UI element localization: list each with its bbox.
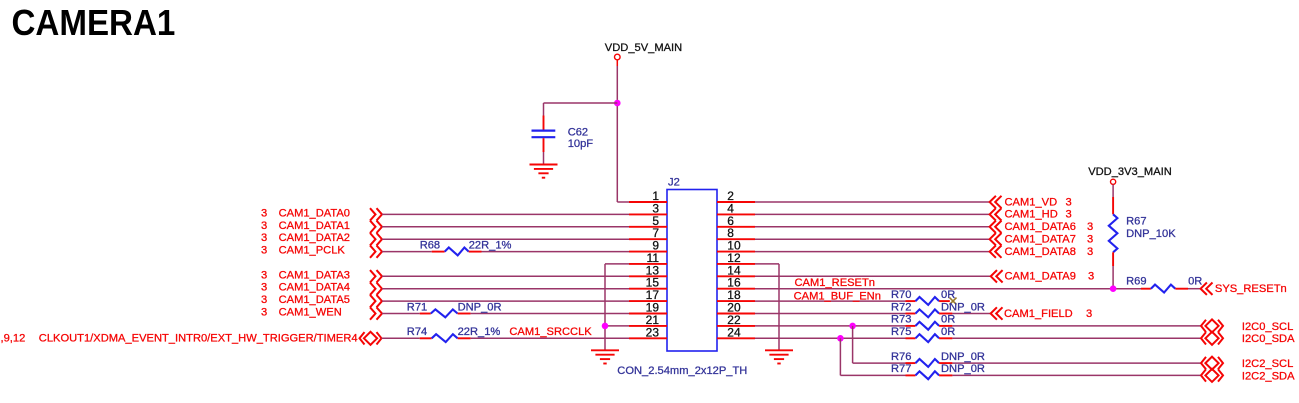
svg-text:CAM1_HD: CAM1_HD [1005, 209, 1058, 221]
svg-text:,9,12: ,9,12 [1, 332, 26, 344]
svg-text:CAM1_FIELD: CAM1_FIELD [1004, 308, 1073, 320]
svg-text:0R: 0R [1188, 276, 1202, 288]
svg-text:R75: R75 [891, 326, 911, 338]
svg-text:3: 3 [261, 282, 267, 294]
svg-text:3: 3 [1087, 234, 1093, 246]
svg-text:CAM1_VD: CAM1_VD [1005, 196, 1058, 208]
svg-text:DNP_0R: DNP_0R [941, 363, 985, 375]
svg-text:VDD_3V3_MAIN: VDD_3V3_MAIN [1088, 166, 1172, 178]
svg-text:R74: R74 [407, 326, 427, 338]
svg-text:CAM1_WEN: CAM1_WEN [279, 307, 342, 319]
svg-text:I2C0_SCL: I2C0_SCL [1242, 321, 1293, 333]
svg-text:CAM1_DATA8: CAM1_DATA8 [1005, 246, 1076, 258]
svg-text:R67: R67 [1126, 215, 1146, 227]
svg-text:3: 3 [1088, 271, 1094, 283]
svg-text:CAM1_DATA1: CAM1_DATA1 [279, 220, 350, 232]
svg-text:CAM1_DATA3: CAM1_DATA3 [279, 269, 350, 281]
svg-text:3: 3 [1087, 246, 1093, 258]
svg-text:R77: R77 [891, 363, 911, 375]
svg-text:3: 3 [1087, 221, 1093, 233]
svg-text:DNP_0R: DNP_0R [941, 301, 985, 313]
svg-text:DNP_0R: DNP_0R [941, 351, 985, 363]
svg-text:0R: 0R [941, 326, 955, 338]
svg-text:3: 3 [261, 232, 267, 244]
svg-text:R70: R70 [891, 289, 911, 301]
svg-text:3: 3 [261, 294, 267, 306]
svg-text:CAMERA1: CAMERA1 [12, 4, 176, 44]
svg-text:3: 3 [261, 220, 267, 232]
svg-text:24: 24 [727, 325, 741, 339]
svg-text:R68: R68 [420, 239, 440, 251]
svg-text:22R_1%: 22R_1% [458, 326, 501, 338]
svg-text:CAM1_DATA2: CAM1_DATA2 [279, 232, 350, 244]
svg-text:3: 3 [1086, 308, 1092, 320]
svg-text:10pF: 10pF [568, 138, 594, 150]
svg-text:CAM1_PCLK: CAM1_PCLK [279, 245, 346, 257]
svg-text:I2C2_SCL: I2C2_SCL [1242, 358, 1293, 370]
svg-text:CON_2.54mm_2x12P_TH: CON_2.54mm_2x12P_TH [617, 365, 747, 377]
svg-text:CAM1_DATA4: CAM1_DATA4 [279, 282, 350, 294]
svg-text:3: 3 [261, 245, 267, 257]
svg-text:R69: R69 [1126, 276, 1146, 288]
svg-text:0R: 0R [941, 314, 955, 326]
svg-text:R72: R72 [891, 301, 911, 313]
svg-text:3: 3 [261, 307, 267, 319]
svg-text:DNP_0R: DNP_0R [458, 301, 502, 313]
svg-text:3: 3 [261, 207, 267, 219]
svg-text:CAM1_DATA7: CAM1_DATA7 [1005, 234, 1076, 246]
svg-text:CAM1_DATA6: CAM1_DATA6 [1005, 221, 1076, 233]
svg-text:I2C2_SDA: I2C2_SDA [1242, 370, 1295, 382]
svg-text:C62: C62 [568, 127, 588, 139]
svg-text:R76: R76 [891, 351, 911, 363]
svg-text:CAM1_DATA5: CAM1_DATA5 [279, 294, 350, 306]
svg-text:DNP_10K: DNP_10K [1126, 228, 1176, 240]
svg-text:VDD_5V_MAIN: VDD_5V_MAIN [605, 42, 682, 54]
svg-text:0R: 0R [941, 289, 955, 301]
svg-text:3: 3 [261, 269, 267, 281]
svg-text:CLKOUT1/XDMA_EVENT_INTR0/EXT_H: CLKOUT1/XDMA_EVENT_INTR0/EXT_HW_TRIGGER/… [39, 332, 358, 344]
svg-text:R73: R73 [891, 314, 911, 326]
svg-text:23: 23 [646, 325, 660, 339]
svg-text:CAM1_DATA0: CAM1_DATA0 [279, 207, 350, 219]
svg-text:22R_1%: 22R_1% [469, 239, 512, 251]
svg-text:J2: J2 [668, 177, 680, 189]
svg-text:SYS_RESETn: SYS_RESETn [1215, 283, 1287, 295]
svg-text:I2C0_SDA: I2C0_SDA [1242, 333, 1295, 345]
svg-text:CAM1_DATA9: CAM1_DATA9 [1005, 271, 1076, 283]
svg-text:R71: R71 [407, 301, 427, 313]
svg-text:CAM1_BUF_ENn: CAM1_BUF_ENn [794, 291, 881, 303]
svg-text:CAM1_SRCCLK: CAM1_SRCCLK [509, 326, 592, 338]
svg-text:CAM1_RESETn: CAM1_RESETn [795, 277, 876, 289]
svg-text:3: 3 [1066, 196, 1072, 208]
svg-text:3: 3 [1066, 209, 1072, 221]
